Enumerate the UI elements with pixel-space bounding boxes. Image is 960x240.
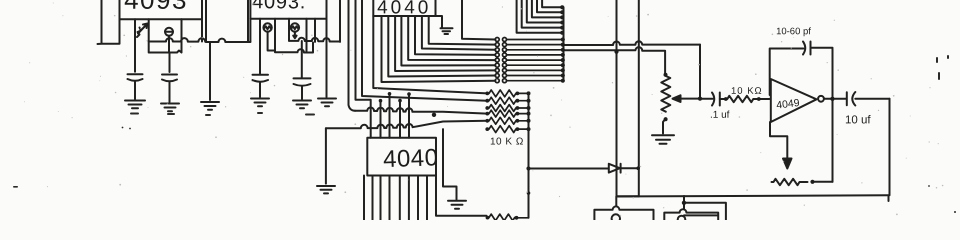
svg-text:.1 uf: .1 uf xyxy=(710,110,730,121)
wire chip2 pin xyxy=(274,19,276,52)
capacitor C5 .1uf xyxy=(712,93,720,106)
resistor 10K xyxy=(489,105,516,112)
ground xyxy=(448,201,466,209)
wire from h1 down xyxy=(699,45,701,99)
wire hop line C y52 xyxy=(275,43,313,53)
wire 4040 bottom pins xyxy=(363,176,365,223)
capacitor C4 xyxy=(294,78,311,85)
wire bus row xyxy=(507,44,563,46)
wire xyxy=(518,107,529,109)
resistor 10K xyxy=(489,126,516,133)
op-amp U1 chip 4093 box xyxy=(120,0,203,19)
svg-text:10 KΩ: 10 KΩ xyxy=(731,86,763,97)
ground xyxy=(161,104,179,112)
capacitor C4 lead xyxy=(301,41,303,78)
wire xyxy=(518,128,529,130)
wire xyxy=(518,100,529,102)
node tall box xyxy=(206,0,248,42)
svg-text:4093.: 4093. xyxy=(252,0,306,13)
wire circle tail xyxy=(168,36,170,53)
op-amp U7 4049 inverter xyxy=(771,79,817,122)
node patch point xyxy=(495,63,499,67)
resistor R9 10K xyxy=(727,96,753,102)
resistor 10K xyxy=(489,90,516,97)
wire arrow into resistor xyxy=(770,122,787,160)
resistor 10K xyxy=(489,117,516,124)
wire bus row xyxy=(507,69,563,71)
IC U1 4093 left small box xyxy=(98,0,120,44)
svg-text:10 uf: 10 uf xyxy=(845,114,871,126)
wire top L feeds xyxy=(517,0,562,33)
wire 4040 right ground xyxy=(443,129,457,199)
svg-text:4093: 4093 xyxy=(124,0,188,15)
ground xyxy=(293,101,311,109)
node patch point xyxy=(495,43,499,47)
wire top feed row1 xyxy=(462,0,495,40)
wire staircase pin Q xyxy=(382,16,496,82)
potentiometer R8 xyxy=(661,76,670,112)
ground xyxy=(317,186,335,193)
wire stub to box1 xyxy=(615,197,617,207)
capacitor C2 lead xyxy=(169,53,171,73)
node patch point xyxy=(495,58,499,62)
wire bus vertical xyxy=(563,7,565,81)
IC U6 box bottom-right xyxy=(664,209,718,220)
wire 4040 top pins xyxy=(380,101,382,138)
wire long bottom xyxy=(617,195,889,196)
wire gnd stub xyxy=(436,16,443,28)
svg-text:10-60 pf: 10-60 pf xyxy=(776,26,811,37)
wire chip2 pin xyxy=(314,19,316,42)
wire feedback resistor R10 xyxy=(772,179,808,185)
wire link xyxy=(248,41,250,43)
node patch point xyxy=(495,38,499,42)
node patch point xyxy=(495,48,499,52)
wire circle1 tail xyxy=(268,32,275,51)
wire hop line D y111 xyxy=(355,107,487,113)
resistor 10K xyxy=(489,110,516,117)
ground xyxy=(251,99,269,107)
capacitor C7 10uf xyxy=(835,92,890,106)
transistor Q2 symbol circle-zigzag xyxy=(263,23,271,31)
node patch point xyxy=(495,74,499,78)
node patch point xyxy=(495,79,499,83)
wire xyxy=(518,120,529,122)
wire hop line E y127 xyxy=(326,121,487,128)
capacitor C1 lead xyxy=(134,19,136,72)
wire tall vertical jog xyxy=(356,0,371,138)
wire 4040 right-bottom xyxy=(436,176,487,216)
resistor R1 variable arrow xyxy=(137,24,148,38)
wire tall vertical xyxy=(349,0,356,111)
wire xyxy=(518,113,529,115)
wire resistor bank vertical xyxy=(528,93,530,217)
svg-text:4040: 4040 xyxy=(383,144,439,173)
capacitor C2 xyxy=(162,75,177,82)
ground xyxy=(652,135,674,144)
wire chip2 left pin xyxy=(249,19,251,42)
wire bus row xyxy=(507,75,563,77)
wire mid vertical 1 xyxy=(616,0,618,197)
resistor bottom row xyxy=(489,214,515,221)
wire bus row xyxy=(507,80,563,82)
capacitor C6 trimmer xyxy=(803,42,811,55)
capacitor C3 xyxy=(253,75,269,82)
wire to ground xyxy=(325,128,327,183)
wire chip1 right pin xyxy=(201,19,203,41)
wire tall vertical xyxy=(362,0,487,101)
wire trimmer loop xyxy=(770,48,833,182)
wire chip2 right pin ground lead xyxy=(326,19,328,97)
capacitor C1 xyxy=(128,74,143,80)
capacitor C3 lead xyxy=(259,19,261,74)
wire bus row xyxy=(507,54,563,56)
wire pot feed h1 xyxy=(564,41,700,45)
IC U4 4040 box xyxy=(367,138,436,176)
ground xyxy=(125,101,145,109)
wire bus row xyxy=(507,59,563,61)
wire corner to top xyxy=(339,0,341,42)
node patch point xyxy=(495,53,499,57)
wire diode feed xyxy=(529,168,609,170)
svg-text:10 K Ω: 10 K Ω xyxy=(490,137,524,148)
wire pot feed h2 xyxy=(564,47,665,74)
resistor 10K xyxy=(489,97,516,104)
wire step xyxy=(617,195,639,197)
ground xyxy=(201,102,219,110)
svg-text:4040: 4040 xyxy=(377,0,431,18)
wire chip2 pin xyxy=(306,19,308,53)
wire stub xyxy=(684,196,726,222)
wire circle2 tail arrow xyxy=(293,32,296,39)
wire to cap xyxy=(700,98,713,100)
wire bus row xyxy=(507,64,563,66)
wire wiper xyxy=(680,98,700,100)
wire hop line A y41.5 xyxy=(149,38,206,42)
node box under chip1 xyxy=(149,19,182,52)
op-amp U3 chip 4040 box xyxy=(373,0,435,16)
wire mid vertical 2 xyxy=(638,0,640,196)
IC U5 box bottom-left xyxy=(594,206,653,220)
wire chip3 left pin long xyxy=(373,16,487,93)
value labels xyxy=(124,0,872,174)
wire bus row xyxy=(507,49,563,51)
wire output down xyxy=(889,99,890,201)
node patch point xyxy=(495,68,499,72)
op-amp U2 chip 4093 box xyxy=(250,0,326,19)
wire chip2 pin xyxy=(288,19,290,41)
wire hop line B y41 xyxy=(289,38,340,42)
wire tall box ground lead xyxy=(209,42,211,100)
resistor bank R2-R7 xyxy=(489,90,529,133)
wire bus row xyxy=(507,39,563,41)
ground xyxy=(441,28,453,34)
wire xyxy=(518,92,529,94)
node bus circles and rows xyxy=(495,38,562,83)
transistor Q3 symbol circle-zigzag xyxy=(291,23,299,31)
ground xyxy=(318,99,336,107)
diode D1 xyxy=(609,164,621,173)
transistor Q1 symbol circle-bar xyxy=(165,28,173,36)
